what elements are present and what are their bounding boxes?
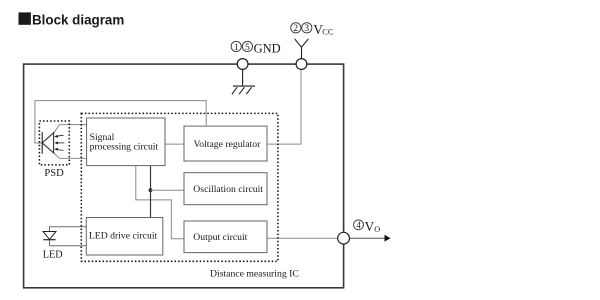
GND pin label ①⑤GND xyxy=(231,41,281,55)
wire: LED anode to LED drive circuit xyxy=(50,227,87,232)
ground symbol xyxy=(232,69,255,94)
title: Block diagram xyxy=(19,12,125,27)
Vo terminal (pin 4) xyxy=(338,232,350,244)
svg-text:Oscillation circuit: Oscillation circuit xyxy=(193,184,263,195)
svg-text:O: O xyxy=(374,225,380,234)
wire: Signal processing circuit to Voltage regulator xyxy=(165,143,184,145)
svg-text:CC: CC xyxy=(322,27,334,36)
svg-text:5: 5 xyxy=(245,43,250,53)
Vo pin label ④Vo xyxy=(354,219,381,234)
wire: Signal processing circuit to Output circuit xyxy=(136,166,184,239)
wire: LED cathode to LED drive circuit xyxy=(50,240,87,246)
wire: Signal processing circuit to LED drive circuit xyxy=(150,166,152,218)
PSD symbol xyxy=(42,132,64,154)
Vcc supply symbol xyxy=(295,39,309,59)
svg-text:Voltage regulator: Voltage regulator xyxy=(194,139,262,150)
svg-text:PSD: PSD xyxy=(44,168,64,179)
svg-text:4: 4 xyxy=(356,220,361,230)
signal processing circuit box xyxy=(87,118,165,166)
GND terminal (pins 1,5) xyxy=(237,59,248,70)
wire: PSD bottom lead to Signal processing circuit xyxy=(54,153,87,159)
voltage regulator box xyxy=(184,126,267,161)
svg-text:Block diagram: Block diagram xyxy=(32,13,124,28)
Distance measuring IC boundary (dashed) xyxy=(81,113,298,279)
svg-text:V: V xyxy=(365,219,375,234)
wire: PSD top lead to Signal processing circuit xyxy=(54,125,87,133)
output circuit box xyxy=(184,221,267,253)
svg-text:processing circuit: processing circuit xyxy=(90,142,159,153)
wire: PSD common to Voltage regulator top xyxy=(35,101,206,143)
svg-text:3: 3 xyxy=(304,24,309,34)
wire: Output circuit to Vo terminal xyxy=(267,237,338,239)
svg-text:LED drive circuit: LED drive circuit xyxy=(89,231,158,242)
wire: junction to Oscillation circuit xyxy=(151,189,185,191)
Vcc pin label ②③Vcc xyxy=(291,22,334,37)
PSD boundary (dashed) xyxy=(39,121,69,165)
junction dot xyxy=(149,188,153,192)
Vo output arrow xyxy=(350,235,391,242)
Vcc terminal (pins 2,3) xyxy=(296,59,307,70)
oscillation circuit box xyxy=(184,173,267,205)
svg-text:Distance measuring IC: Distance measuring IC xyxy=(210,269,299,280)
wire: Voltage regulator to Vcc terminal xyxy=(267,70,301,145)
svg-text:LED: LED xyxy=(43,250,63,261)
LED symbol xyxy=(43,232,56,240)
svg-text:1: 1 xyxy=(234,43,239,53)
svg-text:GND: GND xyxy=(254,41,281,55)
LED drive circuit box xyxy=(86,218,163,256)
svg-text:2: 2 xyxy=(293,24,298,34)
svg-text:Output circuit: Output circuit xyxy=(193,232,247,243)
module outline xyxy=(24,64,344,288)
